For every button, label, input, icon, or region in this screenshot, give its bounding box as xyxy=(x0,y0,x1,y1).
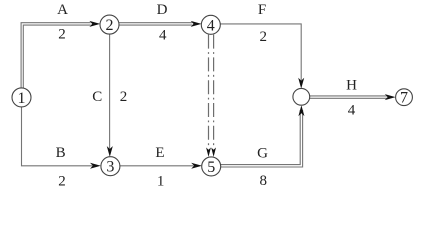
svg-text:2: 2 xyxy=(260,29,268,45)
node 1 xyxy=(12,88,31,107)
wire D double line from node 2 to node 4 xyxy=(119,23,193,25)
svg-text:4: 4 xyxy=(207,17,215,34)
node 2 xyxy=(100,15,119,34)
wire E single line from node 3 to node 5 xyxy=(120,165,194,167)
svg-text:4: 4 xyxy=(348,103,356,119)
svg-text:G: G xyxy=(257,145,268,161)
wire B single line from node 1 down and right to node 3 xyxy=(22,107,93,166)
svg-text:2: 2 xyxy=(58,173,66,189)
svg-text:3: 3 xyxy=(106,159,114,176)
arrowhead into node 2 xyxy=(89,21,100,27)
wire C single line from node 2 down to node 3 xyxy=(109,34,111,149)
svg-text:8: 8 xyxy=(260,173,268,189)
svg-text:4: 4 xyxy=(159,28,167,44)
svg-text:5: 5 xyxy=(207,159,215,176)
svg-text:1: 1 xyxy=(157,173,165,189)
arrowhead into node 3 xyxy=(90,163,101,169)
wire G double line from node 5 right then up to unlabeled node xyxy=(221,110,303,167)
node 5 xyxy=(202,157,221,176)
svg-text:7: 7 xyxy=(400,90,408,107)
wire A double line from node 1 up and right to node 2 xyxy=(21,23,91,89)
svg-text:H: H xyxy=(346,78,357,94)
svg-text:2: 2 xyxy=(120,89,128,105)
dummy arrowheads into node 5 xyxy=(206,148,211,157)
node 7 xyxy=(396,89,413,107)
node 3 xyxy=(101,157,120,176)
arrowhead into unlabeled node from bottom xyxy=(298,105,304,116)
dummy activity dash-dot double line from node 4 down to node 5 xyxy=(209,35,214,148)
arrowhead into node 3 from top xyxy=(107,146,113,157)
svg-text:2: 2 xyxy=(58,27,66,43)
svg-text:F: F xyxy=(258,2,266,18)
svg-text:D: D xyxy=(157,2,168,18)
arrowhead into node 5 xyxy=(191,163,202,169)
svg-text:E: E xyxy=(155,145,164,161)
svg-text:C: C xyxy=(92,89,102,105)
svg-text:B: B xyxy=(56,145,66,161)
svg-text:A: A xyxy=(57,2,68,18)
svg-text:1: 1 xyxy=(18,90,26,107)
arrowhead into node 4 xyxy=(191,21,202,27)
node 4 xyxy=(201,15,220,34)
svg-text:2: 2 xyxy=(106,17,114,34)
wire F single line from node 4 right then down to unlabeled node xyxy=(220,24,301,80)
arrowhead into node 7 xyxy=(385,94,396,100)
unlabeled node (merge) xyxy=(293,88,310,105)
arrowhead into unlabeled node from top xyxy=(298,78,304,89)
wire H double line from unlabeled node to node 7 xyxy=(310,96,387,98)
